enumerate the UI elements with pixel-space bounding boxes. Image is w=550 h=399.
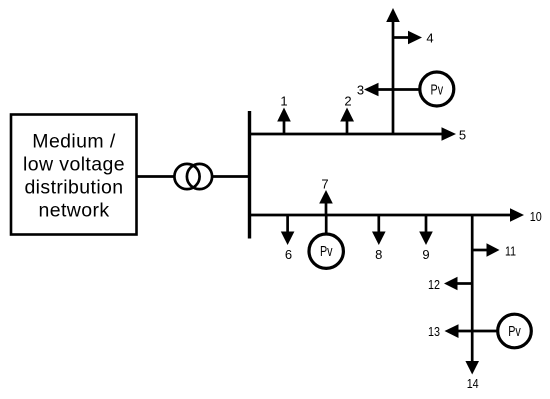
PV generator PV2 xyxy=(309,234,343,268)
load arrow 14 xyxy=(465,361,479,375)
load arrow 8 xyxy=(372,215,386,245)
svg-text:12: 12 xyxy=(428,277,440,292)
svg-text:Medium /: Medium / xyxy=(32,131,116,153)
wire PV3 to branch B xyxy=(459,330,499,333)
load arrow 11 xyxy=(472,243,499,257)
load arrow 12 xyxy=(444,277,472,291)
transformer T1 xyxy=(174,164,212,189)
load arrow 10 xyxy=(510,208,524,222)
svg-text:3: 3 xyxy=(357,83,364,98)
load arrow 2 xyxy=(340,108,354,135)
load arrow 9 xyxy=(419,215,433,245)
svg-text:Pv: Pv xyxy=(320,244,333,260)
svg-text:8: 8 xyxy=(375,247,382,262)
feeder 2 wire xyxy=(249,214,511,217)
wire box to transformer xyxy=(137,175,176,178)
svg-text:9: 9 xyxy=(422,247,429,262)
svg-text:low voltage: low voltage xyxy=(23,154,125,176)
svg-text:distribution: distribution xyxy=(24,177,123,199)
sub-branch B wire (vertical off feeder 2) xyxy=(471,215,474,362)
PV generator PV3 xyxy=(498,314,532,348)
svg-text:4: 4 xyxy=(426,31,433,46)
svg-text:Pv: Pv xyxy=(431,82,444,98)
bus bar xyxy=(248,111,251,239)
svg-text:1: 1 xyxy=(280,94,287,109)
svg-text:6: 6 xyxy=(285,247,292,262)
svg-text:2: 2 xyxy=(344,94,351,109)
sub-branch A wire (vertical off feeder 1) xyxy=(392,21,395,134)
feeder 1 wire xyxy=(249,133,442,136)
svg-text:network: network xyxy=(38,200,109,222)
load arrow 6 xyxy=(281,215,295,245)
load arrow 3 xyxy=(364,83,379,97)
load arrow 7 xyxy=(319,190,333,215)
svg-text:7: 7 xyxy=(321,177,328,192)
svg-text:Pv: Pv xyxy=(508,324,521,340)
svg-text:14: 14 xyxy=(467,376,479,391)
load arrow 5 xyxy=(442,127,457,141)
wire feeder 2 to PV2 xyxy=(325,215,328,235)
wire transformer to bus xyxy=(212,175,249,178)
load arrow 13 xyxy=(445,324,459,338)
load arrow top of branch A xyxy=(386,8,400,22)
svg-text:11: 11 xyxy=(505,244,516,259)
load arrow 4 xyxy=(393,31,422,45)
svg-text:13: 13 xyxy=(428,324,440,339)
source box: Medium / low voltage distribution network xyxy=(11,115,137,235)
wire PV1 to branch A xyxy=(379,88,421,91)
svg-text:10: 10 xyxy=(530,209,542,224)
svg-text:5: 5 xyxy=(459,128,466,143)
PV generator PV1 xyxy=(420,72,454,106)
load arrow 1 xyxy=(277,108,291,135)
